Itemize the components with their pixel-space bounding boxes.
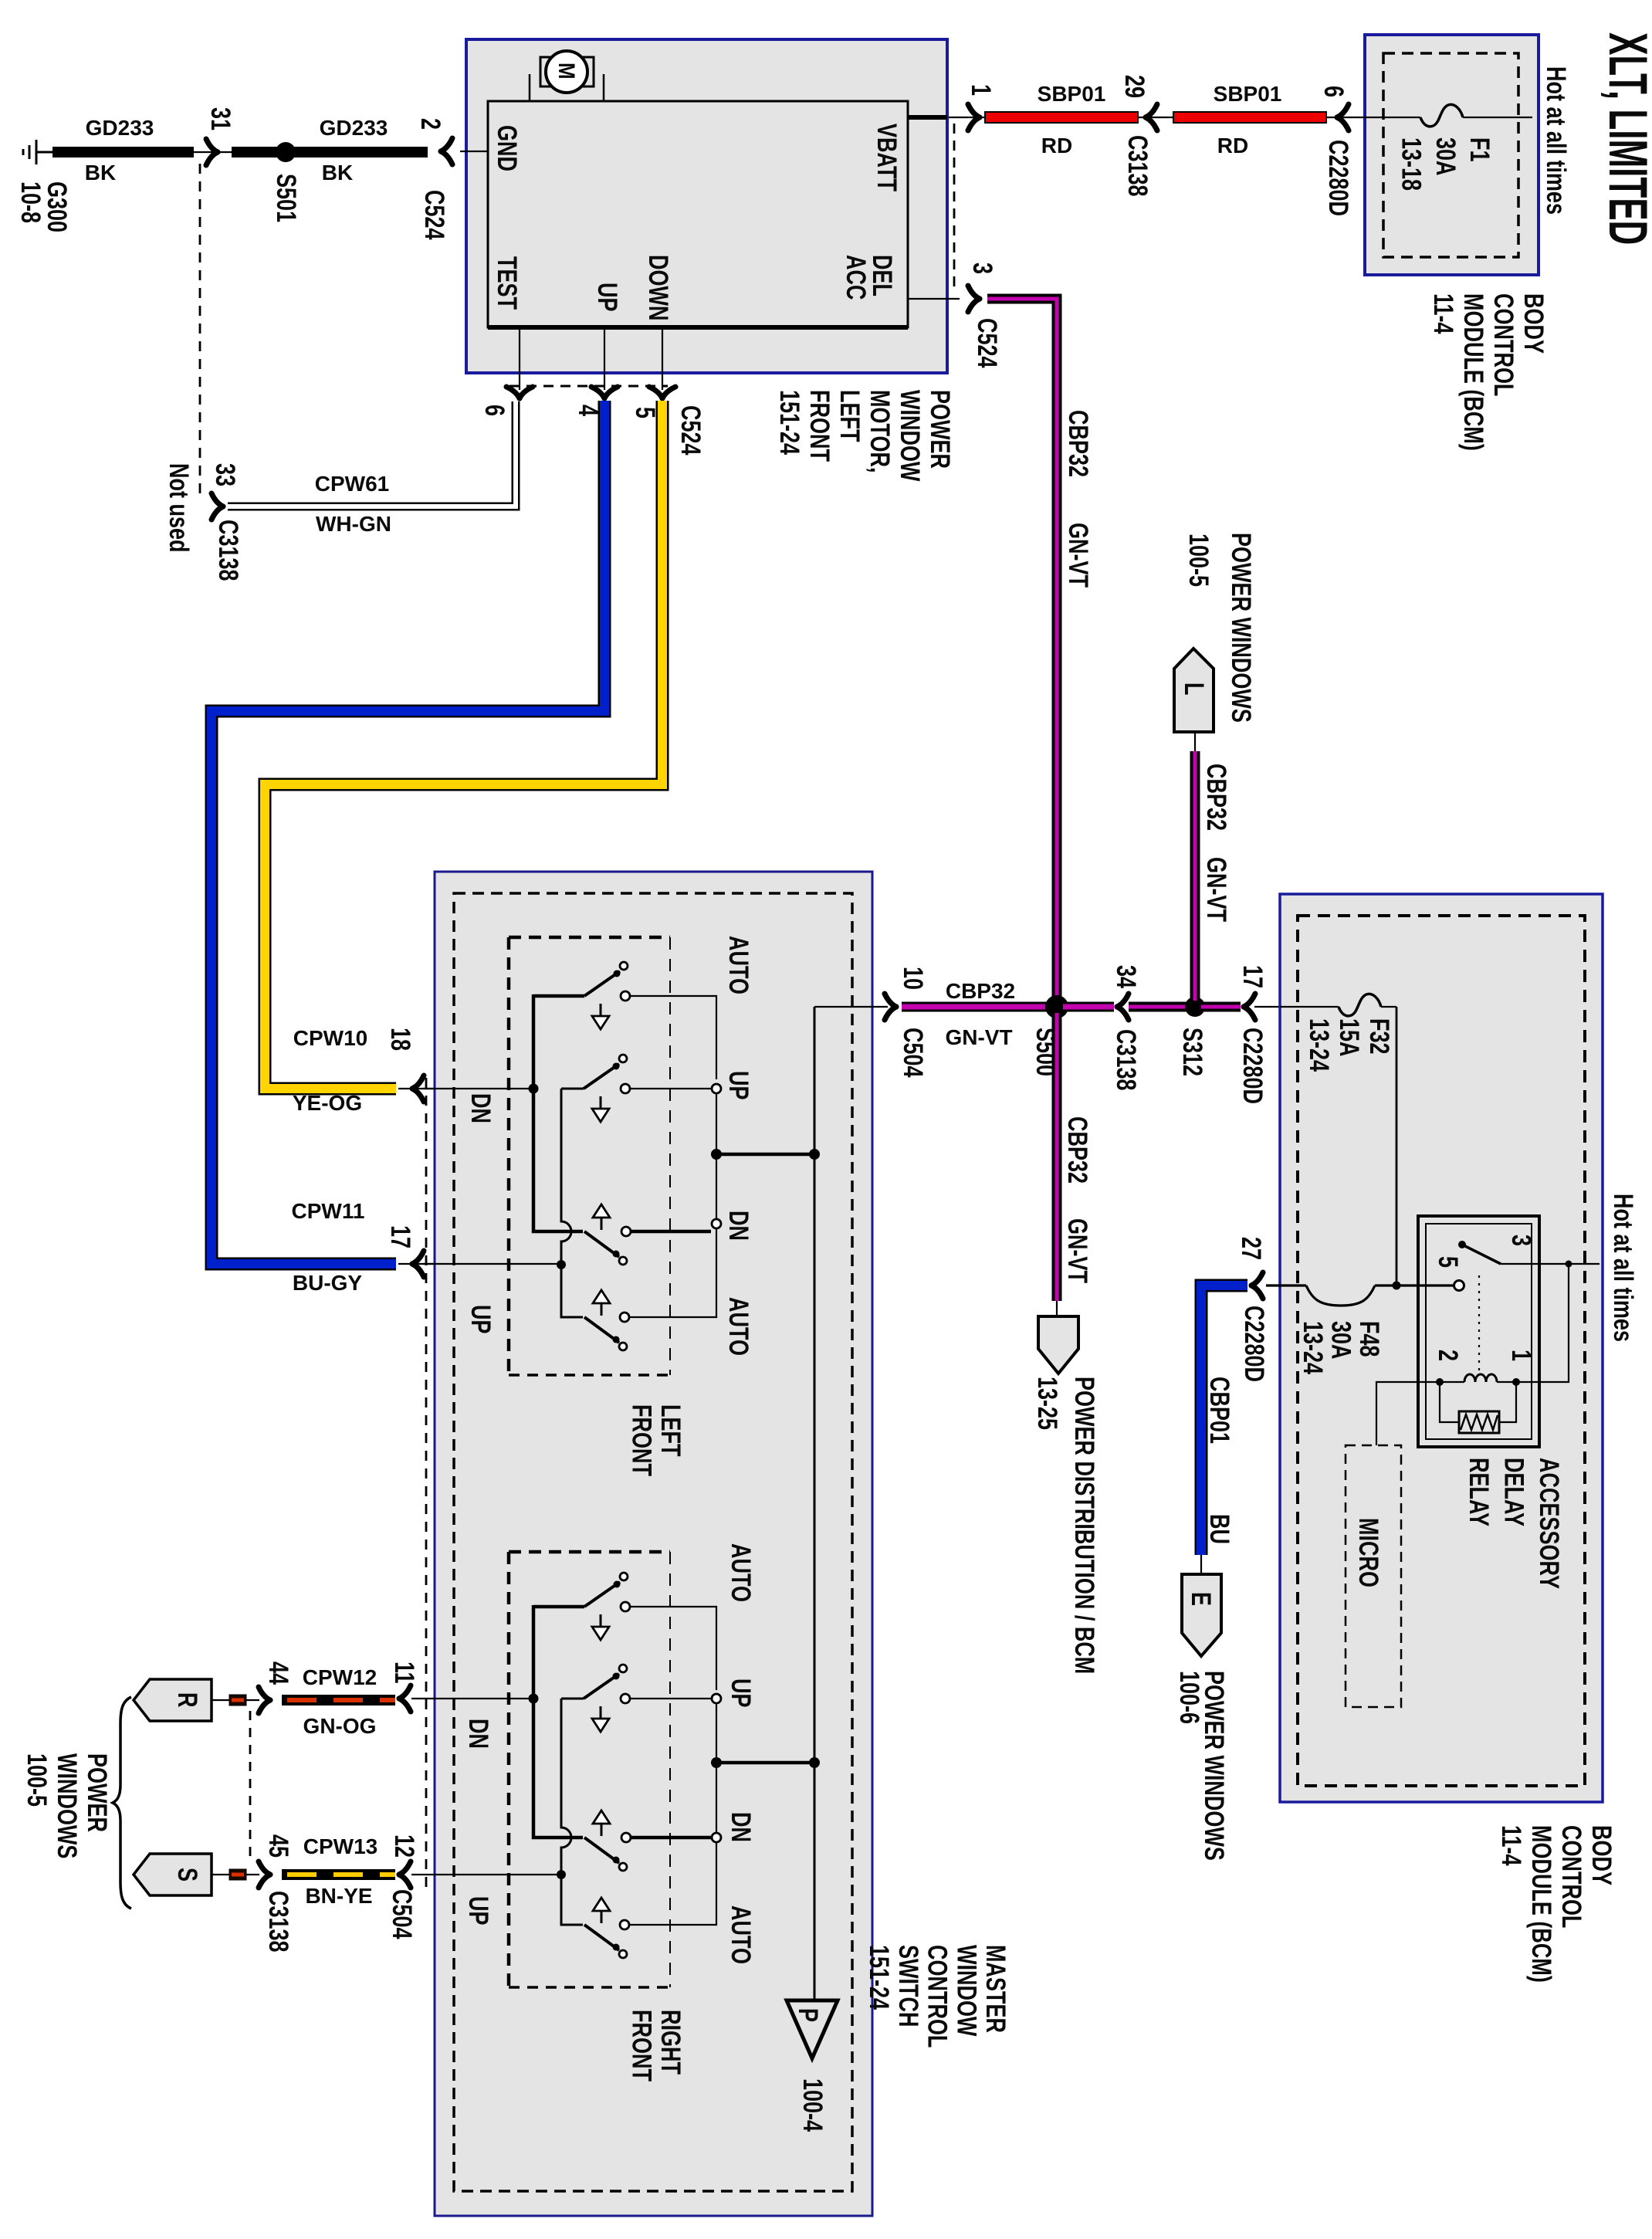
- svg-text:C2280D: C2280D: [1237, 1028, 1268, 1104]
- wire CPW10 YE-OG (yellow, pin5 to pin18): [265, 401, 662, 1089]
- relay coil pins 2 and 1: [1436, 1378, 1444, 1386]
- svg-text:C504: C504: [898, 1028, 928, 1078]
- svg-text:E: E: [1186, 1592, 1216, 1606]
- svg-text:5: 5: [1433, 1256, 1463, 1268]
- fuse F1 30A 13-18: [1420, 104, 1463, 127]
- svg-text:C3138: C3138: [213, 520, 243, 581]
- LF pin 18 line into bus A: [423, 1088, 530, 1089]
- svg-text:100-6: 100-6: [1174, 1671, 1204, 1724]
- svg-text:L: L: [1179, 683, 1209, 695]
- svg-text:2: 2: [1433, 1350, 1463, 1361]
- VBATT pin line: [908, 115, 947, 120]
- pin 4 arrow: [591, 387, 618, 398]
- svg-text:UP: UP: [463, 1896, 493, 1925]
- relay pin 5 contact: [1454, 1281, 1464, 1291]
- svg-text:GN-VT: GN-VT: [1063, 523, 1093, 588]
- svg-text:UP: UP: [465, 1305, 496, 1333]
- off-page connector L (power windows 100-5): [1174, 649, 1214, 732]
- svg-text:BN-YE: BN-YE: [305, 1884, 372, 1908]
- GND pin 2 line: [460, 151, 488, 152]
- svg-text:MICRO: MICRO: [1353, 1518, 1383, 1587]
- svg-text:S: S: [172, 1868, 202, 1882]
- svg-text:1: 1: [1506, 1350, 1536, 1361]
- power window motor left front box: [466, 39, 947, 373]
- svg-text:DN: DN: [463, 1719, 493, 1749]
- RF bus A: [533, 1605, 583, 1838]
- connector pin 11 arrow: [399, 1685, 411, 1712]
- svg-text:11: 11: [389, 1661, 419, 1684]
- connector pin 12 arrow: [399, 1861, 411, 1888]
- svg-text:BU-GY: BU-GY: [293, 1271, 363, 1295]
- body control module BCM top box: [1365, 35, 1539, 275]
- wire CBP32 GN-VT (pin10 to S500): [902, 1002, 1051, 1012]
- RF switch row 4 AUTO: [584, 1925, 619, 1950]
- supply bus vertical: [814, 1007, 816, 2000]
- svg-text:DN: DN: [726, 1812, 756, 1842]
- body control module BCM right box: [1280, 894, 1603, 1802]
- RF switch row 2 UP: [561, 1698, 584, 1700]
- svg-text:Not used: Not used: [164, 463, 194, 552]
- splice S312: [1185, 997, 1205, 1017]
- svg-text:C524: C524: [675, 405, 706, 456]
- dashed line from 31 down to 33: [199, 164, 201, 495]
- connector pin 2 C524 arrow: [441, 138, 452, 164]
- svg-text:CBP32: CBP32: [1062, 1116, 1092, 1184]
- RF pin 11 line: [411, 1698, 530, 1699]
- svg-text:GD233: GD233: [86, 116, 154, 140]
- ground G300 10-8: [23, 140, 52, 164]
- wire SBP01 RD (left segment): [985, 112, 1138, 123]
- LF bus A (thick): [533, 994, 583, 1231]
- svg-text:YE-OG: YE-OG: [293, 1091, 362, 1115]
- connector 34 C3138 arrow: [1117, 994, 1129, 1020]
- svg-text:1: 1: [966, 84, 996, 96]
- RF bus B with hop: [561, 1699, 583, 1925]
- LF terminal circles and vertical link: [712, 1084, 721, 1093]
- svg-text:C504: C504: [387, 1889, 417, 1939]
- master window control switch box: [435, 872, 872, 2216]
- svg-text:SBP01: SBP01: [1038, 82, 1106, 106]
- LF switch row 4 AUTO: [584, 1317, 619, 1343]
- svg-text:P: P: [793, 2008, 823, 2022]
- svg-text:GN-VT: GN-VT: [1201, 857, 1231, 922]
- wire CPW11 BU-GY (blue, pin4 to pin17): [212, 401, 604, 1264]
- connector pin 1 C524 arrow: [968, 104, 980, 130]
- svg-text:6: 6: [1319, 86, 1349, 97]
- wire CPW12 GN-OG: [282, 1695, 395, 1706]
- svg-text:S501: S501: [271, 174, 301, 222]
- svg-text:33: 33: [210, 463, 240, 486]
- svg-text:100-5: 100-5: [1183, 533, 1214, 587]
- svg-text:DN: DN: [723, 1211, 753, 1241]
- accessory delay relay box: [1418, 1216, 1539, 1447]
- svg-text:AUTO: AUTO: [726, 1905, 756, 1964]
- S stub wire: [212, 1874, 229, 1875]
- svg-text:CPW61: CPW61: [315, 472, 389, 496]
- off-page connector E (power windows 100-6): [1200, 1555, 1202, 1574]
- RF pin 12 line: [411, 1874, 558, 1875]
- RF feed line to bus: [716, 1761, 814, 1765]
- svg-text:C524: C524: [972, 318, 1002, 368]
- svg-text:C3138: C3138: [1122, 135, 1153, 197]
- svg-text:CBP32: CBP32: [1201, 764, 1231, 831]
- wire S312 to connector 17: [1201, 1002, 1241, 1012]
- svg-text:31: 31: [205, 107, 235, 130]
- svg-text:GN-VT: GN-VT: [945, 1025, 1012, 1049]
- svg-text:12: 12: [389, 1834, 419, 1858]
- svg-text:27: 27: [1236, 1237, 1266, 1260]
- fuse F32 15A 13-24: [1280, 1006, 1339, 1008]
- connector pin 17 arrow + labels CPW11 BU-GY: [398, 1263, 435, 1265]
- wire 34 to S312: [1129, 1002, 1189, 1012]
- dashed connector C524 link (pin1-pin3): [953, 124, 956, 293]
- svg-text:100-4: 100-4: [797, 2078, 828, 2132]
- svg-text:TEST: TEST: [492, 256, 522, 310]
- pin 5 arrow: [649, 387, 675, 398]
- LF pin 17 line into bus B: [423, 1263, 558, 1265]
- svg-text:GD233: GD233: [320, 116, 388, 140]
- svg-text:S312: S312: [1177, 1028, 1207, 1076]
- dashed connector C504 line (left of box): [425, 1078, 428, 1893]
- svg-text:XLT, LIMITED: XLT, LIMITED: [1597, 32, 1652, 245]
- connector 27 C2280D arrow: [1251, 1272, 1263, 1299]
- wire CPW13 BN-YE: [282, 1869, 395, 1880]
- connector 45 C3138 arrow: [259, 1861, 270, 1888]
- svg-text:C3138: C3138: [263, 1891, 293, 1953]
- svg-text:DELACC: DELACC: [841, 255, 897, 300]
- motor symbol M: [530, 74, 604, 101]
- svg-text:RIGHTFRONT: RIGHTFRONT: [626, 2010, 686, 2081]
- RF switch row 1 AUTO: [533, 1605, 584, 1609]
- svg-text:POWER WINDOWS: POWER WINDOWS: [1226, 533, 1256, 723]
- svg-text:CBP01: CBP01: [1204, 1377, 1234, 1444]
- splice S501: [276, 142, 296, 162]
- relay resistor: [1440, 1382, 1516, 1422]
- svg-text:CPW12: CPW12: [303, 1665, 377, 1689]
- svg-text:UP: UP: [726, 1678, 756, 1707]
- svg-text:GN-OG: GN-OG: [303, 1714, 377, 1738]
- svg-text:DN: DN: [465, 1093, 496, 1123]
- svg-text:VBATT: VBATT: [872, 124, 902, 191]
- wire S500 to connector 34: [1063, 1002, 1114, 1012]
- ground reference P triangle: [787, 2000, 838, 2058]
- relay pin 3 blade: [1458, 1241, 1466, 1248]
- svg-text:GND: GND: [492, 125, 522, 171]
- svg-text:GN-VT: GN-VT: [1062, 1218, 1092, 1283]
- wire inside BCM to fuse F1: [1346, 117, 1420, 118]
- svg-text:SBP01: SBP01: [1214, 82, 1282, 106]
- wire S312 up to L connector: [1190, 751, 1200, 1001]
- MICRO dashed box: [1346, 1445, 1401, 1707]
- svg-text:17: 17: [1237, 965, 1268, 988]
- connector 44 C3138 arrow: [259, 1687, 270, 1713]
- svg-text:C2280D: C2280D: [1323, 140, 1353, 216]
- wire S500 down to power distribution: [1052, 1013, 1062, 1301]
- svg-text:C3138: C3138: [1111, 1029, 1141, 1091]
- left front switch dashed sub-box: [509, 937, 670, 1375]
- fuse F48 30A 13-24 with pin 27 line: [1266, 1284, 1306, 1286]
- connector 31 C3138 arrow: [194, 151, 232, 153]
- svg-text:AUTO: AUTO: [723, 1297, 753, 1356]
- svg-text:CBP32: CBP32: [1063, 410, 1093, 477]
- LF switch row 2 UP: [561, 1088, 584, 1090]
- svg-text:3: 3: [967, 263, 997, 274]
- LF bus B with hop over DN line: [561, 1089, 583, 1317]
- svg-text:6: 6: [479, 405, 509, 416]
- svg-text:RD: RD: [1041, 134, 1072, 158]
- TEST/UP/DOWN pin lines to connector row: [520, 327, 662, 390]
- svg-text:CPW13: CPW13: [303, 1834, 377, 1858]
- pin 6 arrow: [506, 387, 533, 398]
- svg-text:BK: BK: [322, 161, 353, 185]
- svg-text:WH-GN: WH-GN: [316, 512, 391, 536]
- svg-text:CPW10: CPW10: [293, 1026, 367, 1050]
- right front switch dashed sub-box: [509, 1552, 670, 1987]
- svg-text:CBP32: CBP32: [946, 979, 1015, 1003]
- dashed connector C524 row under motor: [509, 385, 668, 388]
- svg-text:BU: BU: [1204, 1514, 1234, 1544]
- pin 10 arrow C504: [872, 1006, 888, 1008]
- LF switch row 3 DN: [584, 1231, 619, 1257]
- svg-text:45: 45: [263, 1834, 293, 1858]
- svg-text:17: 17: [385, 1225, 415, 1248]
- connector 29 C3138 arrow: [1146, 104, 1157, 130]
- svg-text:CPW11: CPW11: [292, 1199, 365, 1223]
- relay actuator dotted link: [1478, 1275, 1480, 1373]
- wire GD233 BK (left segment): [52, 147, 194, 158]
- svg-text:3: 3: [1506, 1235, 1536, 1246]
- connector pin 18 arrow + labels CPW10 YE-OG: [398, 1088, 435, 1089]
- wire CPW61 WH-GN double line: [228, 401, 516, 506]
- R stub wire: [212, 1699, 229, 1701]
- LF feed line to bus: [716, 1153, 814, 1157]
- dashed link 44-45: [249, 1711, 252, 1862]
- connector 6 C2280D arrow: [1337, 104, 1349, 130]
- RF switch row 3 DN: [584, 1838, 619, 1863]
- svg-text:C524: C524: [419, 190, 449, 240]
- off-page connector R: [134, 1679, 212, 1721]
- svg-text:2: 2: [415, 118, 445, 130]
- splice S500: [1045, 995, 1068, 1018]
- svg-text:AUTO: AUTO: [723, 936, 753, 994]
- DEL/ACC pin 3 line: [908, 298, 960, 300]
- svg-text:44: 44: [263, 1661, 293, 1685]
- wire SBP01 RD (right segment): [1173, 112, 1326, 123]
- RF terminal circles and vertical link: [712, 1694, 721, 1703]
- svg-text:10: 10: [898, 967, 928, 990]
- svg-text:29: 29: [1119, 75, 1149, 98]
- svg-text:UP: UP: [592, 283, 622, 311]
- brace power windows 100-5: [113, 1697, 131, 1909]
- svg-text:BK: BK: [85, 161, 116, 185]
- svg-text:DOWN: DOWN: [643, 255, 673, 320]
- svg-text:34: 34: [1111, 965, 1141, 989]
- svg-text:AUTO: AUTO: [726, 1543, 756, 1602]
- connector 33 C3138 not used: [212, 493, 223, 520]
- svg-text:M: M: [554, 63, 580, 80]
- svg-text:RD: RD: [1217, 134, 1248, 158]
- off-page connector S: [134, 1854, 212, 1895]
- wire CBP01 BU (blue): [1201, 1285, 1247, 1555]
- wire CBP32 GN-VT from pin3 to S500 (vertical): [987, 299, 1057, 1004]
- connector pin 3 C524 arrow: [968, 286, 980, 312]
- F32 output line down to relay feed: [1396, 1007, 1398, 1285]
- connector 17 C2280D arrow: [1244, 994, 1255, 1020]
- LF switch row 1 AUTO: [533, 994, 584, 998]
- svg-text:Hot at all times: Hot at all times: [1541, 66, 1571, 215]
- svg-text:UP: UP: [723, 1071, 753, 1099]
- svg-text:18: 18: [385, 1028, 415, 1051]
- off-page connector power distribution / BCM 13-25: [1038, 1316, 1078, 1374]
- pin 10 line inside box: [814, 1006, 872, 1008]
- svg-text:C2280D: C2280D: [1239, 1306, 1269, 1382]
- svg-text:R: R: [172, 1692, 202, 1707]
- svg-text:Hot at all times: Hot at all times: [1608, 1194, 1638, 1342]
- wire MICRO to coil pin 2: [1376, 1382, 1440, 1445]
- wire GD233 BK (right segment): [232, 147, 428, 158]
